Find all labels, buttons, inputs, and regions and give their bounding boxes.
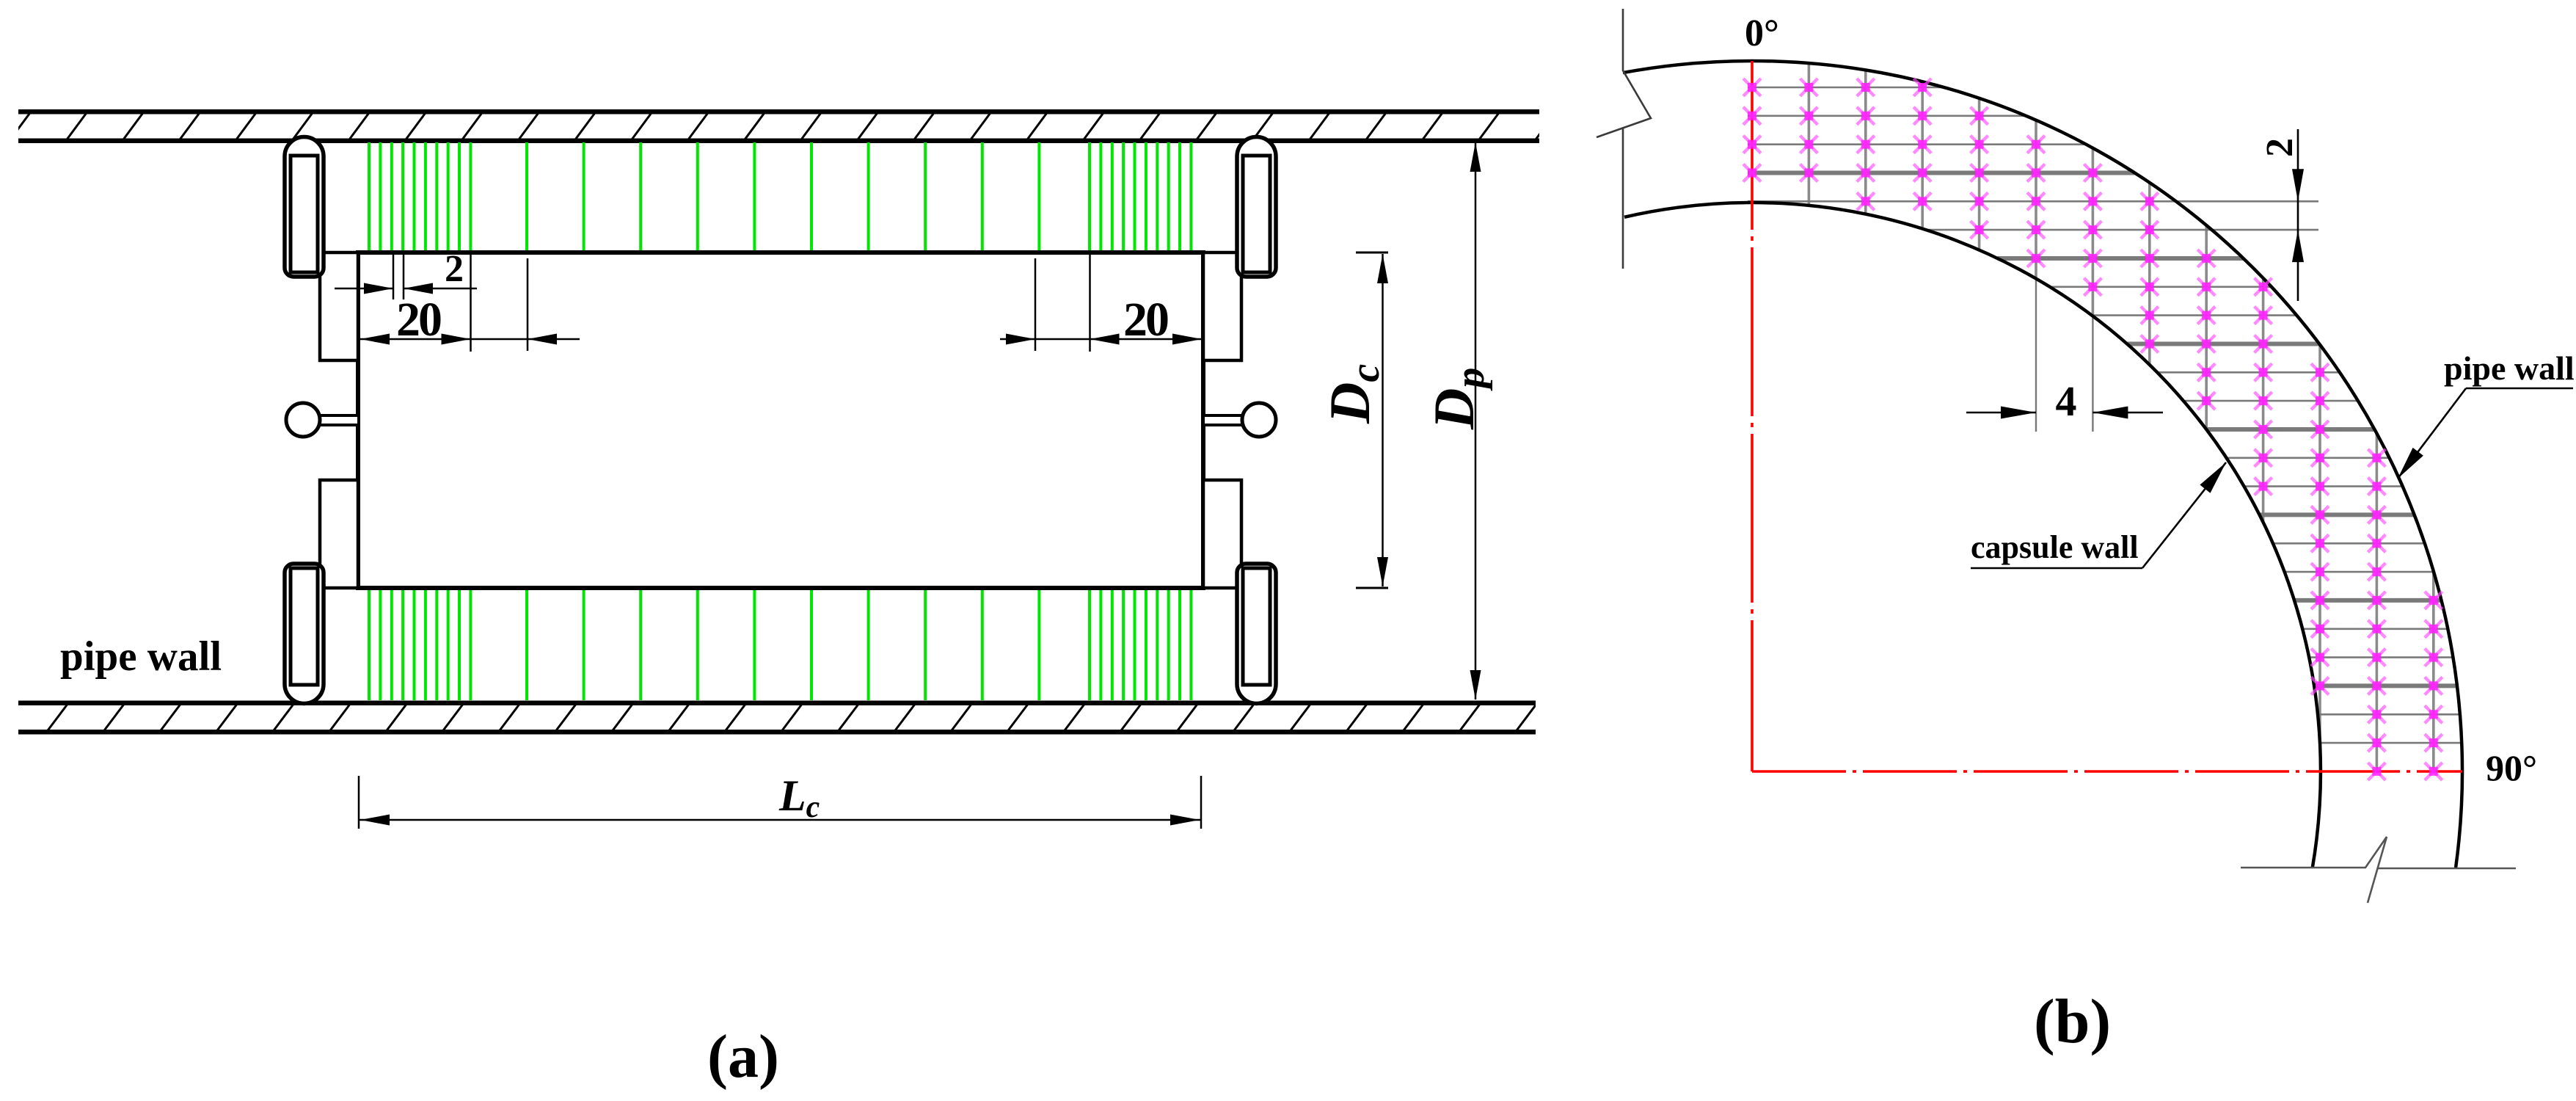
dimension Lc (capsule length): [359, 771, 1201, 829]
dimension 4 (grid spacing, b): [1966, 377, 2163, 425]
red centerline vertical (0 deg axis): [1751, 61, 1754, 771]
svg-text:2: 2: [2259, 138, 2301, 157]
svg-text:Dc: Dc: [1318, 364, 1388, 424]
roller top-left: [285, 137, 324, 277]
roller top-right: [1237, 137, 1276, 277]
dimension 20 (right): [1000, 255, 1203, 352]
leader label pipe wall (b): [2398, 349, 2575, 479]
svg-text:pipe wall: pipe wall: [2444, 349, 2575, 387]
red centerline horizontal (90 deg axis): [1752, 770, 2462, 773]
svg-text:2: 2: [445, 248, 464, 290]
capsule wall inner arc: [1624, 203, 2321, 868]
top pipe wall: [10, 109, 1556, 143]
upper-left collar: [320, 252, 358, 360]
svg-text:Dp: Dp: [1422, 368, 1493, 430]
measurement grid vertical lines (b): [1809, 63, 2433, 771]
dimension Dc (capsule diameter): [1318, 252, 1388, 588]
green gap lines above capsule: [369, 142, 1191, 254]
dimension 2 (fine spacing, left): [335, 248, 477, 299]
lower-left collar: [320, 480, 358, 588]
lower-right collar: [1203, 480, 1241, 588]
left pin: [286, 403, 359, 437]
svg-text:(a): (a): [707, 1022, 779, 1091]
svg-text:(b): (b): [2034, 986, 2111, 1056]
svg-text:4: 4: [2056, 377, 2077, 425]
leader label capsule wall (b): [1971, 462, 2226, 568]
capsule body: [358, 252, 1203, 588]
svg-text:90°: 90°: [2486, 747, 2537, 788]
break symbol at 0 deg end: [1597, 9, 1651, 269]
svg-text:pipe wall: pipe wall: [60, 633, 222, 680]
upper-right collar: [1203, 252, 1241, 360]
measurement grid horizontal lines (b): [1748, 87, 2462, 743]
svg-text:capsule wall: capsule wall: [1971, 529, 2139, 565]
svg-text:20: 20: [396, 293, 441, 346]
dimension Dp (pipe diameter): [1422, 142, 1493, 700]
roller bottom-left: [285, 564, 324, 704]
green gap lines below capsule: [369, 586, 1191, 700]
pipe bend outer wall arc: [1623, 61, 2462, 868]
right pin: [1203, 403, 1276, 437]
svg-text:Lc: Lc: [778, 771, 820, 824]
break symbol at 90 deg end: [2241, 837, 2516, 903]
bottom pipe wall: [0, 701, 1537, 735]
svg-text:20: 20: [1123, 293, 1168, 346]
dimension 2 (radial spacing, b): [2259, 129, 2304, 301]
roller bottom-right: [1237, 564, 1276, 704]
dimension 20 (left): [359, 255, 580, 352]
svg-text:0°: 0°: [1745, 12, 1779, 54]
